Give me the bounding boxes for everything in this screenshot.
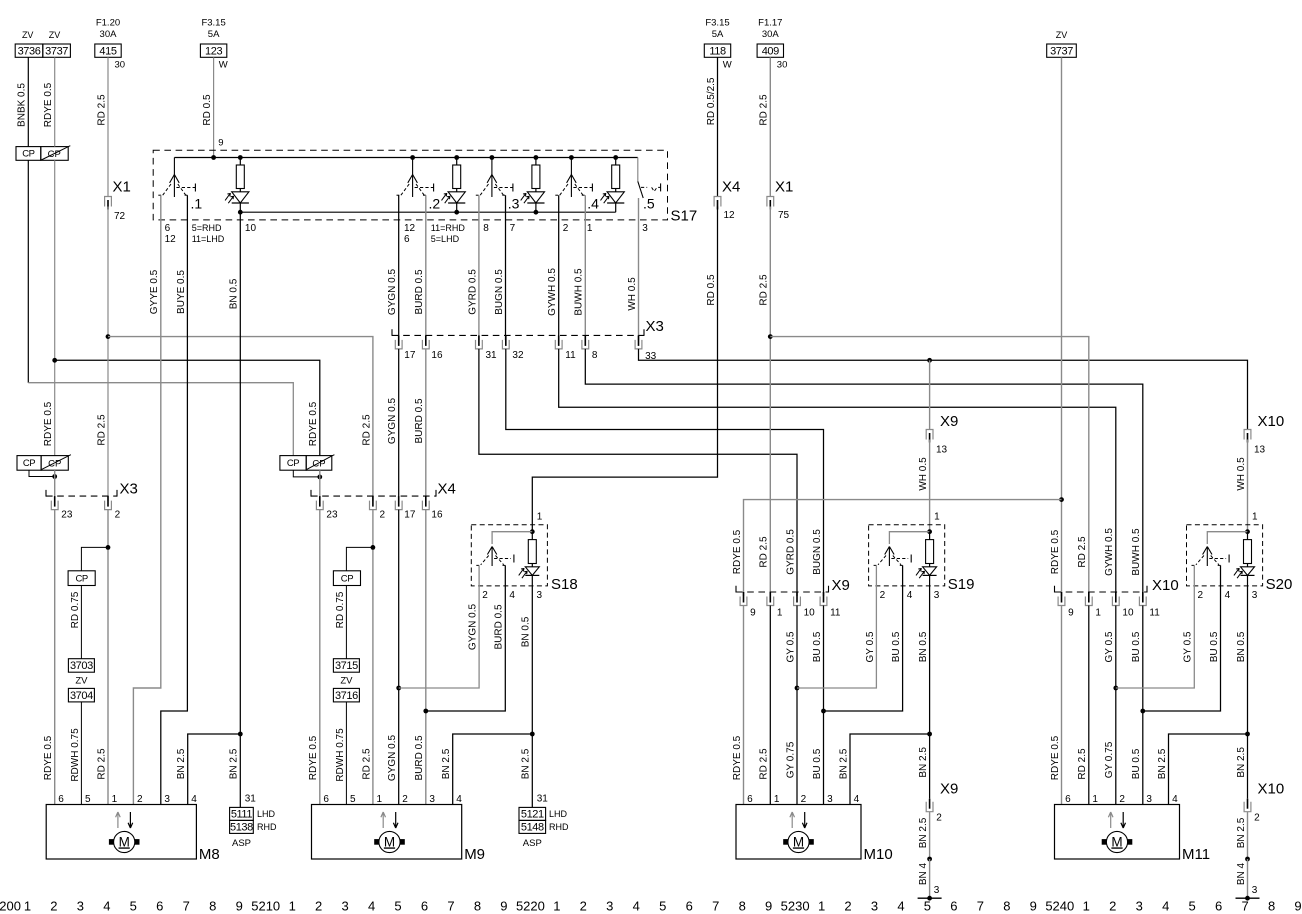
svg-text:7: 7 bbox=[183, 899, 190, 914]
svg-text:GY 0.5: GY 0.5 bbox=[865, 631, 876, 662]
connector X4 pin 2 bbox=[370, 501, 377, 510]
svg-text:RDWH 0.75: RDWH 0.75 bbox=[335, 728, 346, 782]
connector X3 row M8 bbox=[46, 495, 117, 497]
svg-text:3: 3 bbox=[1136, 899, 1143, 914]
svg-text:1: 1 bbox=[774, 794, 780, 805]
connector X10 row bbox=[1055, 591, 1148, 593]
svg-text:2: 2 bbox=[482, 590, 488, 601]
connector X4 pin 17 bbox=[395, 501, 402, 510]
svg-text:RD 2.5: RD 2.5 bbox=[759, 94, 770, 126]
svg-text:BN 2.5: BN 2.5 bbox=[176, 748, 187, 779]
svg-text:3736: 3736 bbox=[18, 45, 41, 57]
wire GYRD 0.5 X3.31 to X9.10 bbox=[479, 349, 797, 596]
svg-text:2: 2 bbox=[137, 794, 143, 805]
svg-text:CP: CP bbox=[22, 149, 34, 160]
wire BUGN 0.5 S17.3 to X3.32 bbox=[505, 195, 507, 340]
svg-text:RDWH 0.75: RDWH 0.75 bbox=[70, 728, 81, 782]
svg-text:10: 10 bbox=[1122, 608, 1134, 619]
svg-text:X10: X10 bbox=[1152, 577, 1179, 594]
svg-text:1: 1 bbox=[553, 899, 560, 914]
svg-text:31: 31 bbox=[245, 794, 257, 805]
svg-text:6: 6 bbox=[58, 794, 64, 805]
svg-text:GYGN 0.5: GYGN 0.5 bbox=[468, 604, 479, 651]
svg-text:BN 2.5: BN 2.5 bbox=[1236, 747, 1247, 778]
svg-text:4: 4 bbox=[633, 899, 640, 914]
svg-text:RD 2.5: RD 2.5 bbox=[96, 748, 107, 780]
wire ZV RDYE from 3737 right bbox=[1061, 57, 1063, 596]
svg-text:WH 0.5: WH 0.5 bbox=[918, 457, 929, 491]
connector X10 pin 10 bbox=[1112, 597, 1119, 606]
connector X9 pin 11 bbox=[820, 597, 827, 606]
svg-text:GYGN 0.5: GYGN 0.5 bbox=[387, 269, 398, 316]
svg-text:GYWH 0.5: GYWH 0.5 bbox=[547, 268, 558, 316]
switch S17.4 rocker bbox=[569, 155, 574, 160]
wire GY X10.10 to M11 pin2 bbox=[1115, 606, 1117, 805]
wire BN 2.5 to X10.2 bbox=[1247, 734, 1249, 799]
svg-text:BN 4: BN 4 bbox=[1236, 862, 1247, 885]
switch S20 enclosure bbox=[1187, 525, 1263, 586]
svg-text:LHD: LHD bbox=[549, 809, 568, 819]
svg-text:CP: CP bbox=[48, 459, 61, 470]
svg-text:5121: 5121 bbox=[521, 809, 544, 821]
svg-text:BURD 0.5: BURD 0.5 bbox=[494, 604, 505, 649]
svg-text:6: 6 bbox=[1065, 794, 1071, 805]
wire CP pair M8 output merge bbox=[29, 470, 55, 476]
svg-text:9: 9 bbox=[218, 137, 223, 148]
svg-text:GYGN 0.5: GYGN 0.5 bbox=[387, 735, 398, 782]
svg-text:RD 2.5: RD 2.5 bbox=[759, 536, 770, 568]
svg-text:X1: X1 bbox=[113, 179, 131, 196]
svg-text:6: 6 bbox=[747, 794, 753, 805]
LED S18 lamp bbox=[531, 564, 533, 567]
wire BU X9.11 to M10 pin3 bbox=[823, 606, 825, 805]
svg-text:32: 32 bbox=[512, 350, 524, 361]
wire GY X9.10 to M10 pin2 bbox=[796, 606, 798, 805]
svg-text:W: W bbox=[219, 60, 228, 71]
connector X10 pin 9 bbox=[1058, 597, 1065, 606]
wire RD 0.75 CP to 3715 bbox=[345, 586, 347, 659]
node BN junction M10 bbox=[927, 732, 932, 737]
svg-text:9: 9 bbox=[750, 608, 756, 619]
svg-text:3: 3 bbox=[1252, 590, 1258, 601]
svg-text:2: 2 bbox=[880, 590, 886, 601]
svg-text:S18: S18 bbox=[551, 576, 578, 593]
wire RDYE 0.5 X3.23 to M8 pin6 bbox=[54, 510, 56, 805]
svg-text:BN 2.5: BN 2.5 bbox=[229, 748, 240, 779]
wire BN 2.5 X10.2 to splice bbox=[1247, 812, 1249, 859]
svg-text:1: 1 bbox=[818, 899, 825, 914]
svg-text:3737: 3737 bbox=[45, 45, 68, 57]
switch S17.2 rocker bbox=[410, 155, 415, 160]
wire GYWH 0.5 X3.11 to X10.10 bbox=[559, 349, 1116, 596]
svg-text:4: 4 bbox=[907, 590, 913, 601]
wire GY 0.5 S20.2 bbox=[1116, 565, 1195, 688]
resistor S18 lamp dropper bbox=[531, 532, 533, 540]
svg-text:12: 12 bbox=[724, 210, 736, 221]
switch S18 rocker bbox=[487, 547, 496, 567]
svg-text:RD 2.5: RD 2.5 bbox=[1077, 536, 1088, 568]
wire RD 0.5/2.5 from fuse 118 bbox=[717, 57, 719, 196]
svg-text:BU 0.5: BU 0.5 bbox=[812, 748, 823, 779]
node GYGN junction S18 bbox=[396, 686, 401, 691]
wire BN 0.5 S17 pin10 ground return bbox=[239, 212, 241, 734]
svg-text:30A: 30A bbox=[762, 29, 780, 40]
svg-text:9: 9 bbox=[1030, 899, 1037, 914]
node M8 lock feed junction bbox=[106, 545, 111, 550]
svg-text:S17: S17 bbox=[671, 208, 698, 225]
svg-text:WH 0.5: WH 0.5 bbox=[1236, 457, 1247, 491]
svg-text:72: 72 bbox=[114, 211, 126, 222]
svg-text:5200: 5200 bbox=[0, 899, 21, 914]
wire RDYE 0.5 below CP bbox=[54, 160, 56, 455]
svg-text:5: 5 bbox=[130, 899, 137, 914]
svg-text:7: 7 bbox=[510, 223, 516, 234]
svg-text:CP: CP bbox=[341, 573, 353, 584]
wire branch to CP M9 bbox=[346, 547, 373, 570]
wire WH 0.5 S17.5 to X3.33 bbox=[638, 198, 640, 340]
svg-text:.3: .3 bbox=[508, 196, 520, 212]
svg-text:4: 4 bbox=[509, 590, 515, 601]
svg-text:10: 10 bbox=[245, 223, 257, 234]
wire S17 supply bus bbox=[174, 157, 637, 159]
svg-text:RDYE 0.5: RDYE 0.5 bbox=[1050, 529, 1061, 574]
svg-text:2: 2 bbox=[380, 509, 386, 520]
svg-text:RDYE 0.5: RDYE 0.5 bbox=[43, 401, 54, 446]
connector X3 pin 23 bbox=[51, 501, 58, 510]
LED S20 lamp bbox=[1247, 564, 1249, 567]
svg-text:S20: S20 bbox=[1266, 576, 1293, 593]
svg-text:X9: X9 bbox=[940, 781, 958, 798]
svg-text:3: 3 bbox=[934, 590, 940, 601]
wire LED return bus bbox=[240, 211, 615, 213]
wire BN 2.5 to X9.2 bbox=[929, 734, 931, 799]
connector X3 pin 2 bbox=[105, 501, 112, 510]
wire GYGN 0.5 X3.17 to X4.17 bbox=[398, 349, 400, 501]
node BU junction S19 bbox=[821, 709, 826, 714]
svg-text:RHD: RHD bbox=[257, 822, 277, 832]
svg-text:3715: 3715 bbox=[335, 660, 358, 672]
svg-text:BU 0.5: BU 0.5 bbox=[812, 631, 823, 662]
svg-text:M: M bbox=[1111, 834, 1122, 849]
svg-text:3: 3 bbox=[1146, 794, 1152, 805]
svg-text:5=LHD: 5=LHD bbox=[431, 234, 460, 244]
svg-text:16: 16 bbox=[431, 509, 443, 520]
connector X3 pin 32 bbox=[502, 340, 509, 349]
svg-text:.5: .5 bbox=[643, 196, 655, 212]
svg-text:4: 4 bbox=[1172, 794, 1178, 805]
svg-text:X1: X1 bbox=[775, 179, 793, 196]
svg-text:23: 23 bbox=[326, 509, 338, 520]
svg-text:6: 6 bbox=[950, 899, 957, 914]
svg-text:8: 8 bbox=[209, 899, 216, 914]
wire BNBK branch to M9 CP bbox=[28, 383, 293, 456]
svg-text:CP: CP bbox=[75, 573, 87, 584]
svg-text:11=LHD: 11=LHD bbox=[192, 234, 225, 244]
node ZV 3715 bbox=[333, 659, 359, 673]
switch S18 enclosure bbox=[471, 525, 547, 586]
wire BN 2.5 to M9 pin4 bbox=[453, 734, 533, 805]
wire RDYE 0.5 X4.23 to M9 pin6 bbox=[319, 510, 321, 805]
wire BN 4 to ground bbox=[929, 859, 931, 898]
svg-text:RDYE 0.5: RDYE 0.5 bbox=[43, 82, 54, 127]
LED S17 lamp 3 bbox=[535, 189, 537, 192]
svg-text:LHD: LHD bbox=[257, 809, 276, 819]
svg-text:1: 1 bbox=[1092, 794, 1098, 805]
svg-text:1: 1 bbox=[377, 794, 383, 805]
svg-text:7: 7 bbox=[447, 899, 454, 914]
wire BUGN 0.5 X3.32 to X9.11 bbox=[506, 349, 824, 596]
svg-text:3: 3 bbox=[827, 794, 833, 805]
svg-text:M11: M11 bbox=[1182, 846, 1210, 863]
svg-text:GYRD 0.5: GYRD 0.5 bbox=[467, 269, 478, 315]
svg-text:RDYE 0.5: RDYE 0.5 bbox=[43, 735, 54, 780]
svg-text:3: 3 bbox=[341, 899, 348, 914]
svg-text:30: 30 bbox=[115, 60, 126, 71]
svg-text:RD 0.75: RD 0.75 bbox=[335, 591, 346, 628]
wire RD 2.5 X10.1 to M11 pin1 bbox=[1088, 606, 1090, 805]
svg-text:5A: 5A bbox=[712, 29, 724, 40]
svg-text:3: 3 bbox=[77, 899, 84, 914]
svg-text:.1: .1 bbox=[191, 196, 203, 212]
svg-text:BU 0.5: BU 0.5 bbox=[1131, 748, 1142, 779]
wire BNBK 0.5 below CP bbox=[27, 160, 29, 382]
splice CP pair top bbox=[16, 147, 41, 161]
node S20 pin1 junction bbox=[1245, 529, 1250, 534]
svg-text:3: 3 bbox=[606, 899, 613, 914]
svg-text:6: 6 bbox=[421, 899, 428, 914]
svg-text:BN 2.5: BN 2.5 bbox=[1157, 748, 1168, 779]
svg-text:4: 4 bbox=[103, 899, 110, 914]
svg-text:GYWH 0.5: GYWH 0.5 bbox=[1104, 528, 1115, 576]
svg-text:CP: CP bbox=[23, 458, 35, 469]
wire BUWH 0.5 S17.4 to X3.8 bbox=[584, 195, 586, 340]
svg-text:1: 1 bbox=[1252, 512, 1258, 523]
svg-text:5=RHD: 5=RHD bbox=[192, 223, 222, 233]
svg-text:BN 2.5: BN 2.5 bbox=[918, 747, 929, 778]
wire BN 0.5 S19.3 bbox=[929, 586, 931, 734]
svg-text:RDYE 0.5: RDYE 0.5 bbox=[308, 735, 319, 780]
wire GYGN 0.5 S18.2 bbox=[399, 565, 479, 688]
svg-text:10: 10 bbox=[804, 608, 816, 619]
svg-text:X4: X4 bbox=[722, 179, 740, 196]
svg-text:X3: X3 bbox=[646, 318, 664, 335]
svg-text:6: 6 bbox=[165, 223, 171, 234]
node RD 2.5 branch junction bbox=[106, 334, 111, 339]
svg-text:17: 17 bbox=[404, 509, 416, 520]
svg-text:F3.15: F3.15 bbox=[705, 17, 729, 28]
wire BN 2.5 to ground point 5121 bbox=[531, 734, 533, 807]
svg-text:X10: X10 bbox=[1258, 781, 1285, 798]
connector X4 pin 16 bbox=[422, 501, 429, 510]
wire BN 0.5 S20.3 bbox=[1247, 586, 1249, 734]
svg-text:2: 2 bbox=[844, 899, 851, 914]
svg-text:4: 4 bbox=[456, 794, 462, 805]
wire BN 2.5 S17.10 to ground point 5111 bbox=[239, 734, 241, 807]
svg-text:4: 4 bbox=[191, 794, 197, 805]
svg-text:.4: .4 bbox=[587, 196, 599, 212]
wire RDYE 0.5 branch to X9.9 bbox=[744, 500, 1062, 596]
node BN ground junction M8 bbox=[238, 732, 243, 737]
svg-text:2: 2 bbox=[1119, 794, 1125, 805]
svg-text:RDYE 0.5: RDYE 0.5 bbox=[308, 401, 319, 446]
wire BN 2.5 to M11 pin4 bbox=[1169, 734, 1248, 805]
svg-text:8: 8 bbox=[592, 350, 598, 361]
svg-text:3716: 3716 bbox=[335, 690, 358, 702]
wire S18 internal feed bbox=[492, 532, 532, 544]
svg-text:ASP: ASP bbox=[523, 838, 542, 849]
svg-text:BUYE 0.5: BUYE 0.5 bbox=[176, 270, 187, 314]
svg-text:5A: 5A bbox=[208, 29, 220, 40]
connector X9 pin 1 bbox=[767, 597, 774, 606]
svg-text:BURD 0.5: BURD 0.5 bbox=[414, 735, 425, 780]
wire RDYE 0.5 X9.9 to M10 pin6 bbox=[743, 606, 745, 805]
svg-text:415: 415 bbox=[99, 45, 116, 57]
svg-text:CP: CP bbox=[287, 458, 299, 469]
svg-text:RHD: RHD bbox=[549, 822, 569, 832]
svg-text:GY 0.5: GY 0.5 bbox=[785, 631, 796, 662]
svg-text:11: 11 bbox=[830, 608, 841, 619]
svg-text:30: 30 bbox=[777, 60, 788, 71]
resistor S19 lamp dropper bbox=[929, 532, 931, 540]
connector X3 pin 31 bbox=[476, 340, 483, 349]
svg-text:5148: 5148 bbox=[521, 822, 544, 834]
resistor S20 lamp dropper bbox=[1247, 532, 1249, 540]
svg-text:4: 4 bbox=[1225, 590, 1231, 601]
svg-text:ZV: ZV bbox=[1056, 30, 1068, 40]
wire BURD 0.5 S18.4 bbox=[426, 565, 506, 711]
svg-text:8: 8 bbox=[1003, 899, 1010, 914]
svg-text:GYYE 0.5: GYYE 0.5 bbox=[149, 269, 160, 314]
switch S17.5 contact bbox=[637, 158, 639, 182]
svg-text:BN 0.5: BN 0.5 bbox=[229, 278, 240, 309]
connector X10 pin 11 bbox=[1139, 597, 1146, 606]
svg-text:16: 16 bbox=[431, 350, 443, 361]
node BU junction S20 bbox=[1140, 709, 1145, 714]
svg-text:.2: .2 bbox=[429, 196, 441, 212]
svg-text:5138: 5138 bbox=[230, 822, 253, 834]
svg-text:M: M bbox=[384, 834, 395, 849]
svg-text:RD 0.75: RD 0.75 bbox=[70, 591, 81, 628]
connector X3 pin 17 bbox=[395, 340, 402, 349]
wire GYYE 0.5 S17.1 to M8 pin2 bbox=[133, 195, 160, 804]
wire RDYE 0.5 X10.9 to M11 pin6 bbox=[1061, 606, 1063, 805]
svg-text:F3.15: F3.15 bbox=[201, 17, 225, 28]
svg-text:5240: 5240 bbox=[1045, 899, 1074, 914]
svg-text:F1.20: F1.20 bbox=[96, 17, 120, 28]
svg-text:4: 4 bbox=[897, 899, 904, 914]
node S19 pin1 junction bbox=[927, 529, 932, 534]
resistor S17 lamp 3 dropper bbox=[534, 155, 539, 160]
svg-text:GYRD 0.5: GYRD 0.5 bbox=[785, 529, 796, 575]
svg-text:BURD 0.5: BURD 0.5 bbox=[414, 269, 425, 314]
svg-text:CP: CP bbox=[48, 149, 61, 160]
svg-text:BN 2.5: BN 2.5 bbox=[838, 748, 849, 779]
svg-text:BN 0.5: BN 0.5 bbox=[1236, 631, 1247, 662]
svg-text:F1.17: F1.17 bbox=[758, 17, 782, 28]
svg-text:M10: M10 bbox=[864, 846, 893, 863]
svg-text:3: 3 bbox=[1252, 885, 1258, 896]
wire RD 2.5 from fuse 409 bbox=[769, 57, 771, 196]
svg-text:23: 23 bbox=[61, 509, 73, 520]
svg-text:8: 8 bbox=[474, 899, 481, 914]
wire RD 2.5 branch to X10.1 bbox=[770, 337, 1089, 596]
svg-text:1: 1 bbox=[934, 512, 940, 523]
wire BN 4 to ground bbox=[1247, 859, 1249, 898]
svg-text:1: 1 bbox=[587, 223, 593, 234]
node BN junction M11 bbox=[1245, 732, 1250, 737]
node BN splice bbox=[927, 857, 932, 862]
svg-text:5: 5 bbox=[659, 899, 666, 914]
wire GYWH 0.5 S17.4 to X3.11 bbox=[558, 195, 560, 340]
wire CP pair M9 output merge bbox=[293, 470, 320, 477]
svg-text:BN 4: BN 4 bbox=[918, 862, 929, 885]
svg-text:M9: M9 bbox=[464, 846, 485, 863]
svg-text:123: 123 bbox=[205, 45, 222, 57]
svg-text:3: 3 bbox=[871, 899, 878, 914]
LED S19 lamp bbox=[929, 564, 931, 567]
svg-text:X9: X9 bbox=[940, 413, 958, 430]
wire RD 2.5 from fuse 415 bbox=[107, 57, 109, 196]
svg-text:1: 1 bbox=[537, 512, 543, 523]
wire RDYE 0.5 from 3737 bbox=[54, 57, 56, 146]
svg-text:9: 9 bbox=[1068, 608, 1074, 619]
svg-text:3: 3 bbox=[164, 794, 170, 805]
node GY junction S20 bbox=[1113, 686, 1118, 691]
svg-text:12: 12 bbox=[404, 223, 416, 234]
svg-text:RD 2.5: RD 2.5 bbox=[759, 274, 770, 306]
connector X9 pin 10 bbox=[794, 597, 801, 606]
connector X3 pin 8 bbox=[582, 340, 589, 349]
svg-text:BU 0.5: BU 0.5 bbox=[1209, 631, 1220, 662]
wire BUWH 0.5 X3.8 to X10.11 bbox=[585, 349, 1143, 596]
wire RDWH 0.75 to M8 pin5 bbox=[80, 702, 82, 805]
svg-text:RD 2.5: RD 2.5 bbox=[361, 748, 372, 780]
splice CP pair M9 bbox=[280, 456, 306, 471]
wire BURD 0.5 X3.16 to X4.16 bbox=[425, 349, 427, 501]
wire WH 0.5 drop to X9.13 bbox=[929, 360, 931, 429]
wire RD 0.75 CP to 3703 bbox=[80, 586, 82, 659]
svg-text:RD 0.5/2.5: RD 0.5/2.5 bbox=[706, 77, 717, 125]
svg-text:BN 0.5: BN 0.5 bbox=[918, 631, 929, 662]
svg-text:6: 6 bbox=[686, 899, 693, 914]
wire RD 2.5 X1.75 down to X9.1 bbox=[769, 207, 771, 597]
svg-text:5111: 5111 bbox=[231, 809, 253, 821]
svg-text:30A: 30A bbox=[100, 29, 118, 40]
node WH branch to X9.13 bbox=[927, 358, 932, 363]
motor M9 front right window bbox=[312, 805, 462, 860]
svg-text:9: 9 bbox=[236, 899, 243, 914]
splice CP M8 bbox=[68, 571, 95, 586]
svg-text:ZV: ZV bbox=[340, 676, 353, 687]
svg-text:2: 2 bbox=[1254, 813, 1260, 824]
svg-text:BUWH 0.5: BUWH 0.5 bbox=[1131, 528, 1142, 576]
LED S17 lamp 4 bbox=[615, 189, 617, 192]
svg-text:BU 0.5: BU 0.5 bbox=[1131, 631, 1142, 662]
node M9 lock feed junction bbox=[371, 545, 376, 550]
svg-text:2: 2 bbox=[1109, 899, 1116, 914]
svg-text:5: 5 bbox=[394, 899, 401, 914]
svg-text:3: 3 bbox=[429, 794, 435, 805]
svg-text:CP: CP bbox=[312, 459, 325, 470]
svg-text:5210: 5210 bbox=[251, 899, 280, 914]
svg-text:X9: X9 bbox=[832, 577, 850, 594]
svg-text:1: 1 bbox=[1095, 608, 1101, 619]
LED S17 lamp 1 bbox=[239, 189, 241, 192]
svg-text:2: 2 bbox=[1198, 590, 1204, 601]
switch S19 enclosure bbox=[869, 525, 945, 586]
svg-text:11: 11 bbox=[565, 350, 576, 361]
svg-text:5: 5 bbox=[85, 794, 91, 805]
